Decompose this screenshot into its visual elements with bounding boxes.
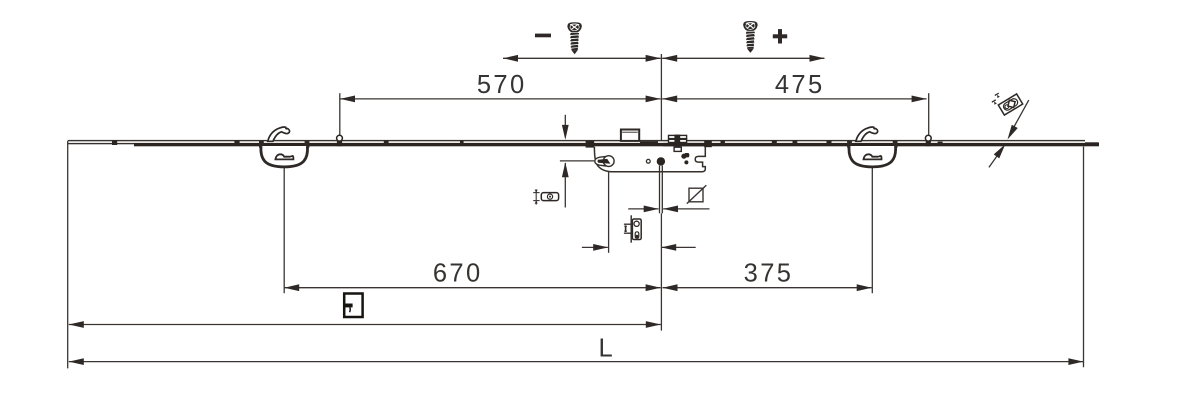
dimension center-to-left-end [69, 321, 661, 328]
gearbox left mount [586, 141, 595, 148]
right cam extension line [871, 167, 873, 293]
rail top line [68, 140, 1085, 141]
plus sign [773, 29, 787, 43]
rail tick 4 [460, 141, 464, 144]
475 rivet [925, 135, 931, 146]
clip [669, 135, 687, 152]
screw left [567, 22, 581, 54]
dimension 475 [662, 71, 926, 102]
center extension line upper [660, 54, 662, 140]
keyhole axis dimension [582, 244, 696, 251]
rail tick 8 [827, 140, 832, 144]
dimension 670 [284, 260, 660, 291]
right roller cam [847, 127, 897, 167]
small pin icon left [533, 189, 558, 204]
rail tick 1 [112, 140, 117, 145]
small parts right of spindle [681, 153, 689, 164]
gearbox right mount [704, 141, 712, 148]
right extension line [1083, 147, 1085, 368]
rail right end stub [1085, 142, 1099, 145]
dimension 570 [340, 71, 661, 102]
center extension line lower [660, 213, 662, 330]
vertical small dimension (rail to axis) [560, 115, 594, 208]
570 rivet [337, 135, 343, 146]
rail bar over clip [663, 143, 712, 146]
rail left lower line [68, 143, 134, 144]
screw right [743, 21, 757, 53]
faceplate icon [624, 215, 641, 242]
small hole [646, 159, 650, 163]
spindle double line [659, 166, 661, 214]
rail tick 9 [938, 142, 943, 145]
svg-text:375: 375 [744, 260, 794, 288]
left roller cam [259, 127, 309, 167]
rail drive bar [134, 143, 1099, 146]
square spindle symbol [687, 185, 707, 203]
rail tick 6 [772, 140, 777, 144]
475 rivet extension line [928, 93, 930, 134]
dimension 375 [663, 260, 872, 291]
svg-text:670: 670 [433, 260, 483, 288]
top adjust dimension left [503, 55, 661, 62]
rail dark segment left of center [640, 141, 658, 144]
top adjust dimension right [662, 55, 824, 62]
keyhole axis extension line [608, 166, 610, 253]
svg-text:475: 475 [775, 71, 825, 99]
rail tick 2 [234, 140, 239, 144]
angled cam adjust indicator [989, 85, 1029, 167]
gearbox body [594, 147, 705, 172]
svg-text:570: 570 [477, 71, 527, 99]
left extension line [67, 141, 69, 368]
minus sign [535, 34, 551, 38]
gearbox top box [620, 129, 639, 141]
spindle pin [657, 157, 665, 165]
window icon [344, 294, 362, 318]
spindle rod dimension [628, 206, 709, 213]
keyhole slot [595, 156, 614, 167]
left cam extension line [283, 167, 285, 293]
rail tick 3 [384, 140, 389, 144]
rail tick 5 [721, 140, 725, 144]
dimension L [69, 335, 1084, 365]
570 rivet extension line [339, 93, 341, 136]
rail tick 7 [793, 140, 798, 144]
svg-text:L: L [599, 335, 613, 363]
